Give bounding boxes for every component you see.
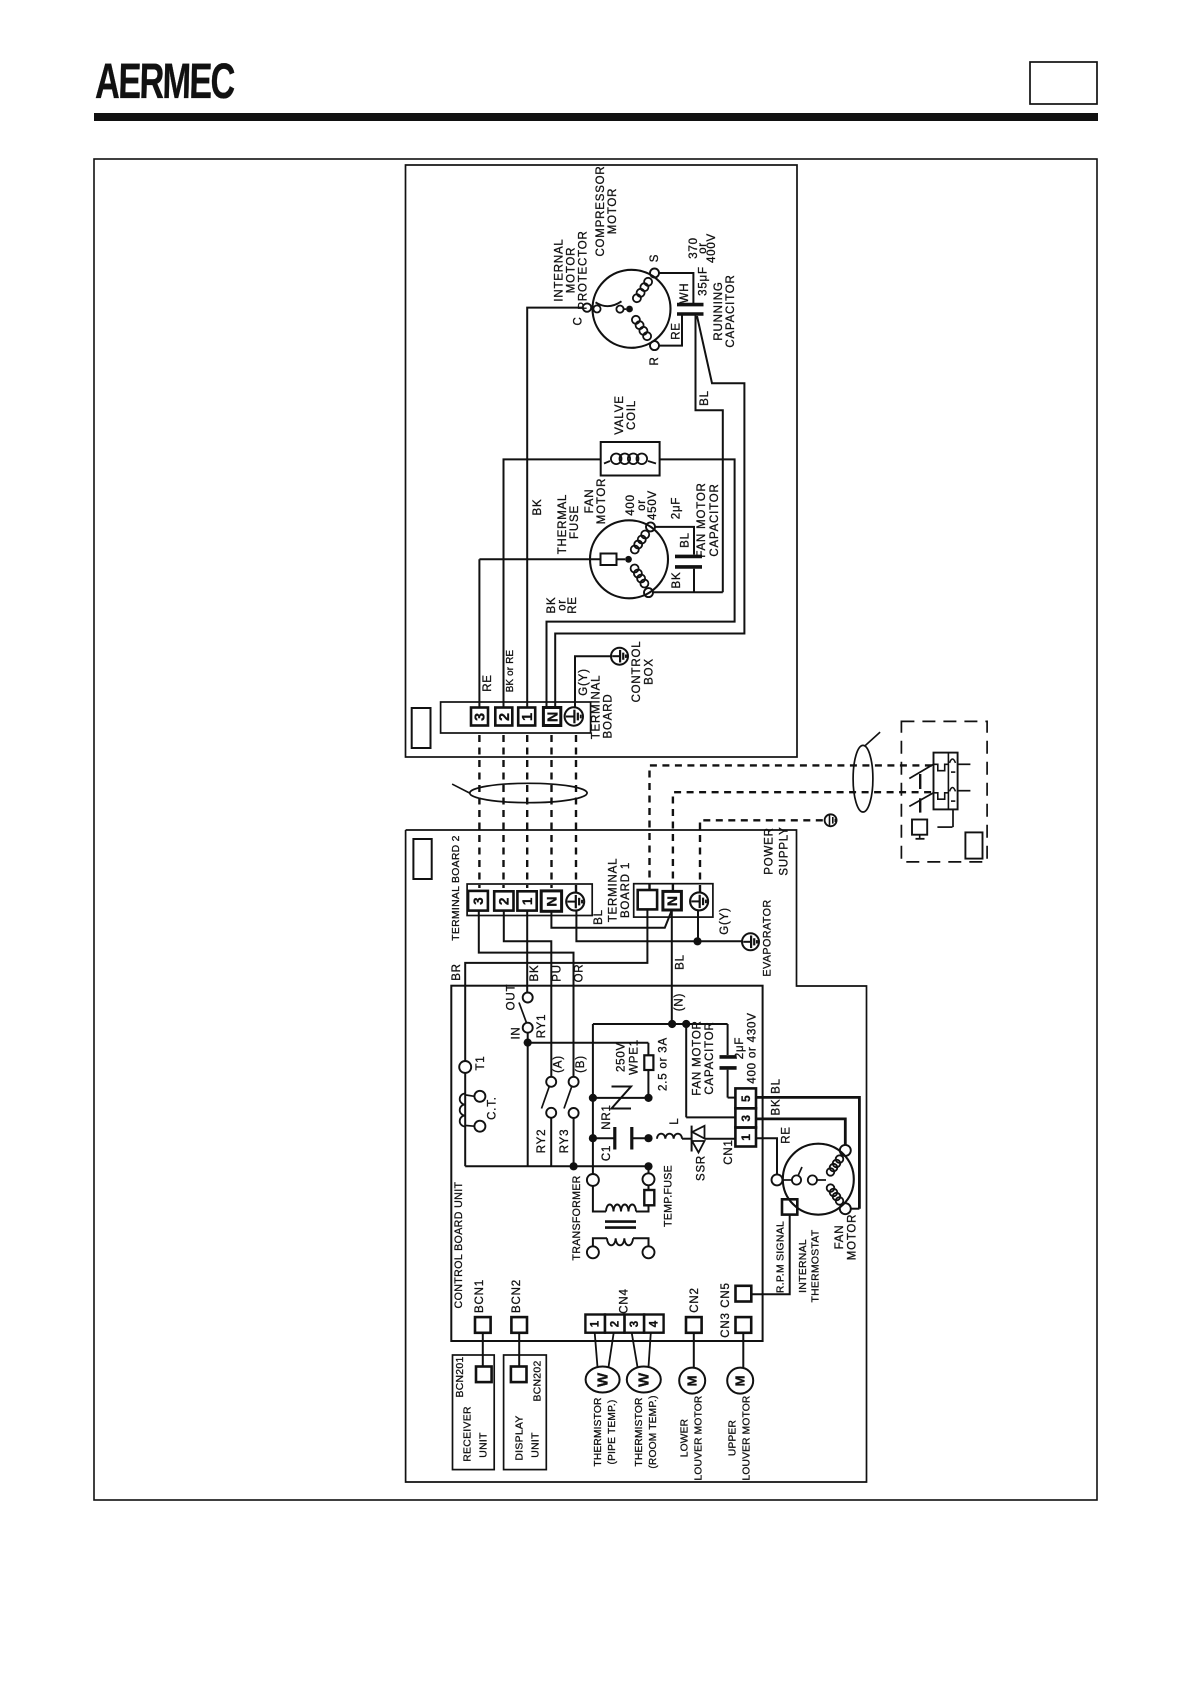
internal thermostat lead contact bbox=[772, 1174, 783, 1185]
svg-text:400 or 430V: 400 or 430V bbox=[747, 1012, 759, 1083]
svg-text:(PIPE TEMP.): (PIPE TEMP.) bbox=[607, 1400, 618, 1465]
lower louver motor bbox=[693, 1333, 695, 1368]
TB1 terminal blank bbox=[638, 890, 657, 909]
svg-text:BR: BR bbox=[451, 963, 463, 981]
svg-text:35μF: 35μF bbox=[698, 266, 710, 296]
svg-text:EVAPORATOR: EVAPORATOR bbox=[762, 899, 774, 976]
connector BCN202 bbox=[511, 1367, 527, 1383]
relay RY3 contact B bbox=[569, 1077, 579, 1087]
TB2 terminal N bbox=[541, 891, 561, 911]
svg-text:BK or RE: BK or RE bbox=[505, 650, 516, 693]
svg-text:3: 3 bbox=[629, 1320, 641, 1327]
dashed cable wire earth bbox=[575, 735, 577, 893]
svg-text:BL: BL bbox=[680, 532, 692, 548]
svg-text:S: S bbox=[649, 254, 661, 262]
fan motor bottom terminal bbox=[644, 588, 653, 597]
bottom bus wire bbox=[465, 1165, 648, 1167]
svg-text:G(Y): G(Y) bbox=[578, 668, 590, 695]
svg-text:OUT: OUT bbox=[506, 984, 518, 1011]
transformer core bbox=[605, 1220, 636, 1223]
terminal 2 bbox=[495, 708, 512, 726]
valve coil winding bbox=[611, 454, 622, 465]
svg-text:3: 3 bbox=[739, 1114, 753, 1121]
connector CN1 pin 3 bbox=[735, 1108, 756, 1127]
svg-text:450V: 450V bbox=[647, 490, 659, 520]
connector BCN2 bbox=[511, 1317, 527, 1333]
svg-text:BCN201: BCN201 bbox=[455, 1356, 466, 1397]
transformer secondary bbox=[593, 1238, 607, 1246]
indoor fan motor shell bbox=[783, 1144, 854, 1215]
fan motor winding to top bbox=[631, 546, 639, 554]
outdoor fan motor shell bbox=[590, 520, 668, 598]
svg-text:BL: BL bbox=[675, 954, 687, 970]
svg-text:BOARD: BOARD bbox=[603, 694, 615, 739]
relay RY2 bottom contact bbox=[546, 1108, 556, 1118]
thermistor pipe temp bbox=[586, 1367, 620, 1393]
wire CN1-1 RE bbox=[756, 1138, 777, 1174]
svg-text:TERMINAL: TERMINAL bbox=[591, 675, 603, 740]
svg-text:BK: BK bbox=[532, 499, 544, 516]
svg-text:(B): (B) bbox=[575, 1055, 587, 1073]
indoor fan motor top terminal bbox=[840, 1145, 851, 1156]
control box earth bbox=[611, 648, 628, 665]
svg-text:RE: RE bbox=[781, 1126, 793, 1144]
svg-text:R: R bbox=[649, 356, 661, 365]
svg-text:FAN: FAN bbox=[834, 1225, 846, 1250]
svg-text:C: C bbox=[573, 316, 585, 325]
svg-text:THERMAL: THERMAL bbox=[557, 494, 569, 555]
compressor winding to R bbox=[632, 316, 640, 324]
fan capacitor bottom stub bbox=[693, 569, 695, 593]
svg-text:TERMINAL BOARD 2: TERMINAL BOARD 2 bbox=[451, 835, 462, 940]
TB2 earth terminal bbox=[566, 893, 584, 911]
wire fuse drop to terminal 3 bbox=[478, 559, 480, 707]
compressor winding to S bbox=[633, 294, 641, 302]
power plug block bbox=[934, 753, 958, 810]
wire fan top terminal to fan capacitor bbox=[656, 527, 695, 555]
relay RY1 blade bbox=[519, 1003, 527, 1023]
svg-text:5: 5 bbox=[739, 1095, 753, 1102]
svg-text:NR1: NR1 bbox=[601, 1104, 613, 1129]
svg-text:M: M bbox=[684, 1375, 699, 1387]
power cable tick bbox=[865, 732, 880, 745]
terminal 3 bbox=[471, 708, 488, 726]
AERMEC logo bbox=[95, 54, 235, 110]
wire TB2-2 to PU bbox=[504, 911, 552, 1077]
relay RY2 blade bbox=[542, 1086, 550, 1109]
svg-text:250V: 250V bbox=[616, 1042, 628, 1072]
svg-text:N: N bbox=[545, 711, 561, 722]
power meter box with earth bbox=[912, 820, 927, 835]
relay RY3 bottom contact bbox=[569, 1108, 579, 1118]
display unit box bbox=[504, 1355, 547, 1470]
svg-text:2.5 or 3A: 2.5 or 3A bbox=[658, 1037, 670, 1091]
transformer primary bbox=[593, 1186, 606, 1212]
thermal fuse bbox=[601, 554, 617, 566]
cable tick bbox=[452, 784, 470, 793]
wire TB1 N BL down bbox=[671, 910, 673, 1024]
relay RY3 blade bbox=[564, 1086, 572, 1109]
svg-text:MOTOR: MOTOR bbox=[847, 1214, 859, 1261]
connector CN5 bbox=[736, 1286, 752, 1302]
plug output lines bbox=[958, 763, 971, 765]
wire diagonal to outer BL loop bbox=[555, 316, 744, 707]
svg-text:RE: RE bbox=[567, 596, 579, 614]
svg-text:BL: BL bbox=[771, 1078, 783, 1094]
dashed cable wire 2 bbox=[502, 735, 504, 888]
power earth pin symbol bbox=[825, 814, 837, 826]
svg-text:BL: BL bbox=[699, 390, 711, 406]
wire CN1-3 BK bbox=[756, 1119, 845, 1145]
svg-text:3: 3 bbox=[471, 897, 486, 905]
svg-text:RUNNING: RUNNING bbox=[713, 281, 725, 340]
fan motor top terminal bbox=[646, 522, 655, 531]
svg-text:1: 1 bbox=[520, 897, 535, 905]
relay RY1 OUT contact bbox=[523, 993, 533, 1003]
dashed power wire L bbox=[650, 765, 934, 890]
upper louver motor bbox=[742, 1333, 744, 1368]
svg-text:COIL: COIL bbox=[626, 400, 638, 430]
connector BCN1 bbox=[475, 1317, 491, 1333]
svg-text:PROTECTOR: PROTECTOR bbox=[578, 230, 590, 309]
svg-text:FAN MOTOR: FAN MOTOR bbox=[696, 482, 708, 557]
outer frame bbox=[94, 159, 1097, 1500]
internal thermostat contacts bbox=[783, 1179, 792, 1181]
svg-text:INTERNAL: INTERNAL bbox=[554, 238, 566, 301]
svg-text:T1: T1 bbox=[475, 1055, 487, 1070]
wire TB2-1 BK to RY1 bbox=[526, 911, 528, 993]
breaker switch blades bbox=[909, 764, 933, 778]
compressor winding junction bbox=[624, 308, 627, 310]
terminal N bbox=[543, 708, 560, 726]
svg-text:N: N bbox=[664, 895, 680, 906]
running capacitor C plates bbox=[677, 303, 704, 307]
indoor label box bbox=[413, 839, 431, 879]
terminal board 1 bbox=[634, 884, 713, 917]
evaporator earth bbox=[742, 933, 759, 950]
svg-text:SSR: SSR bbox=[696, 1155, 708, 1181]
TB2 terminal 2 bbox=[494, 891, 513, 910]
svg-text:UPPER: UPPER bbox=[728, 1420, 739, 1456]
svg-text:RY1: RY1 bbox=[536, 1014, 548, 1039]
fan motor capacitor indoor bbox=[727, 1024, 729, 1055]
svg-text:RE: RE bbox=[482, 674, 494, 692]
temp fuse bbox=[644, 1190, 654, 1205]
wire earth to control box earth bbox=[575, 656, 611, 708]
svg-text:BCN202: BCN202 bbox=[533, 1360, 544, 1401]
RY1 down wire bbox=[527, 1043, 529, 1167]
svg-text:W: W bbox=[636, 1372, 653, 1387]
connector T1 bbox=[459, 1061, 471, 1073]
svg-text:BK: BK bbox=[671, 572, 683, 589]
valve coil box bbox=[601, 442, 660, 476]
svg-text:IN: IN bbox=[511, 1026, 523, 1039]
svg-text:WPE1: WPE1 bbox=[629, 1039, 641, 1075]
thermistor room temp leads bbox=[632, 1333, 638, 1367]
connector CN1 pin 1 bbox=[735, 1128, 756, 1147]
svg-text:1: 1 bbox=[520, 712, 536, 721]
svg-text:RECEIVER: RECEIVER bbox=[463, 1406, 474, 1462]
RY3 junction dot bbox=[570, 1162, 578, 1170]
wire valve coil left to terminal 2 bbox=[504, 459, 601, 707]
live feed bus bbox=[528, 1042, 649, 1044]
svg-text:FAN MOTOR: FAN MOTOR bbox=[692, 1020, 704, 1095]
svg-text:1: 1 bbox=[739, 1133, 753, 1140]
thermal fuse wire bbox=[479, 558, 600, 560]
svg-text:BK: BK bbox=[771, 1099, 783, 1116]
indoor fan motor winding bottom bbox=[827, 1184, 835, 1192]
wire C to terminal 1 BK bbox=[527, 308, 582, 707]
power supply box bbox=[901, 721, 987, 862]
power label box bbox=[965, 832, 982, 858]
svg-text:TERMINAL: TERMINAL bbox=[608, 858, 620, 923]
svg-text:CN2: CN2 bbox=[689, 1287, 701, 1312]
temp fuse pin bbox=[643, 1173, 655, 1185]
current transformer CT bbox=[464, 1073, 466, 1166]
svg-text:INTERNAL: INTERNAL bbox=[798, 1239, 809, 1293]
svg-text:AERMEC: AERMEC bbox=[95, 54, 235, 110]
header title box bbox=[1030, 62, 1097, 104]
terminal 1 bbox=[518, 708, 535, 726]
wire valve coil right to terminal N bbox=[547, 459, 735, 707]
svg-text:CONTROL BOARD UNIT: CONTROL BOARD UNIT bbox=[453, 1181, 465, 1308]
rpm signal wire bbox=[751, 1215, 789, 1295]
svg-text:(ROOM TEMP.): (ROOM TEMP.) bbox=[648, 1395, 659, 1468]
inductor L bbox=[657, 1134, 682, 1139]
svg-text:M: M bbox=[732, 1375, 747, 1387]
cable ellipse bbox=[470, 783, 587, 802]
compressor terminal C bbox=[583, 303, 591, 311]
transformer primary pin bbox=[587, 1174, 599, 1186]
compressor motor M1 shell bbox=[593, 270, 671, 348]
svg-text:BOX: BOX bbox=[644, 658, 656, 685]
outdoor terminal board bbox=[441, 702, 591, 733]
dashed cable wire N bbox=[550, 735, 552, 888]
svg-text:CN4: CN4 bbox=[619, 1288, 631, 1313]
svg-text:THERMOSTAT: THERMOSTAT bbox=[811, 1229, 822, 1302]
svg-text:DISPLAY: DISPLAY bbox=[515, 1415, 526, 1460]
varistor NR1 bbox=[589, 1094, 597, 1102]
svg-text:BOARD 1: BOARD 1 bbox=[620, 862, 632, 918]
TB1 terminal N bbox=[663, 891, 682, 910]
svg-text:OR: OR bbox=[574, 964, 586, 983]
svg-text:1: 1 bbox=[590, 1320, 602, 1327]
dashed power earth wire bbox=[700, 820, 823, 892]
indoor fan motor bottom terminal bbox=[840, 1203, 851, 1214]
svg-text:CONTROL: CONTROL bbox=[631, 641, 643, 703]
SSR triac bbox=[691, 1126, 693, 1152]
svg-text:MOTOR: MOTOR bbox=[566, 247, 578, 294]
TB2 terminal 1 bbox=[517, 891, 536, 910]
svg-text:LOUVER MOTOR: LOUVER MOTOR bbox=[694, 1396, 705, 1481]
svg-text:R.P.M SIGNAL: R.P.M SIGNAL bbox=[776, 1221, 787, 1293]
svg-text:N: N bbox=[543, 896, 559, 907]
receiver unit box bbox=[453, 1355, 495, 1470]
svg-text:MOTOR: MOTOR bbox=[596, 478, 608, 525]
svg-text:C.T.: C.T. bbox=[487, 1096, 499, 1120]
svg-text:BCN1: BCN1 bbox=[474, 1279, 486, 1313]
header rule bbox=[94, 113, 1098, 121]
connector CN2 bbox=[686, 1317, 702, 1333]
svg-text:CN5: CN5 bbox=[720, 1282, 732, 1307]
svg-text:2μF: 2μF bbox=[671, 497, 683, 519]
svg-text:3: 3 bbox=[473, 712, 489, 721]
indoor fan motor winding top bbox=[827, 1168, 835, 1176]
earth bus wire bbox=[576, 911, 742, 942]
outdoor unit box bbox=[406, 165, 798, 757]
svg-text:2: 2 bbox=[609, 1320, 621, 1327]
transformer secondary pins bbox=[587, 1246, 599, 1258]
svg-text:RE: RE bbox=[671, 322, 683, 340]
internal motor protector contacts bbox=[593, 305, 600, 312]
thermistor pipe temp leads bbox=[595, 1333, 598, 1367]
terminal board 2 bbox=[467, 884, 592, 916]
wire N to CN1-3 bbox=[685, 1024, 687, 1117]
dashed cable wire 3 bbox=[478, 735, 480, 888]
svg-text:THERMISTOR: THERMISTOR bbox=[593, 1397, 604, 1466]
svg-text:CAPACITOR: CAPACITOR bbox=[725, 274, 737, 347]
svg-text:THERMISTOR: THERMISTOR bbox=[634, 1397, 645, 1466]
connector CN3 bbox=[736, 1317, 752, 1333]
svg-text:FAN: FAN bbox=[584, 489, 596, 514]
power cable ellipse bbox=[853, 745, 873, 812]
wire fan bottom terminal BK bbox=[654, 591, 723, 593]
N horizontal wire bbox=[593, 1023, 728, 1025]
rpm signal sensor bbox=[782, 1199, 797, 1214]
svg-text:CN3: CN3 bbox=[720, 1312, 732, 1337]
svg-text:PU: PU bbox=[551, 964, 563, 982]
RY1 junction dot bbox=[524, 1039, 532, 1047]
svg-text:RY2: RY2 bbox=[536, 1129, 548, 1154]
svg-text:UNIT: UNIT bbox=[531, 1432, 542, 1458]
svg-text:CN1: CN1 bbox=[723, 1139, 735, 1164]
relay RY1 IN contact bbox=[523, 1023, 533, 1033]
svg-text:TEMP.FUSE: TEMP.FUSE bbox=[662, 1165, 674, 1227]
svg-text:(A): (A) bbox=[553, 1055, 565, 1073]
svg-text:BK: BK bbox=[529, 965, 541, 982]
fan motor winding to bottom bbox=[631, 565, 639, 573]
outdoor label box bbox=[412, 708, 431, 748]
power link line bbox=[937, 826, 952, 828]
capacitor C1 bbox=[589, 1134, 597, 1142]
wire SSR to CN1-1 bbox=[705, 1138, 736, 1140]
svg-text:C1: C1 bbox=[601, 1145, 613, 1161]
svg-text:FUSE: FUSE bbox=[569, 505, 581, 539]
dashed power wire N bbox=[673, 792, 933, 891]
earth bus junction dot bbox=[693, 937, 701, 945]
N node dots bbox=[668, 1020, 676, 1028]
N column wire bbox=[592, 1024, 594, 1174]
svg-text:TRANSFORMER: TRANSFORMER bbox=[571, 1175, 583, 1260]
svg-text:BCN2: BCN2 bbox=[511, 1279, 523, 1313]
relay RY2 contact A bbox=[546, 1077, 556, 1087]
svg-text:BL: BL bbox=[593, 909, 605, 925]
svg-text:L: L bbox=[669, 1117, 681, 1124]
outdoor terminal earth bbox=[565, 707, 583, 725]
connector BCN201 bbox=[476, 1367, 492, 1383]
TB2 terminal 3 bbox=[468, 891, 488, 911]
svg-text:LOWER: LOWER bbox=[680, 1419, 691, 1457]
svg-text:2μF: 2μF bbox=[734, 1037, 746, 1059]
fan motor winding junction bbox=[625, 556, 632, 563]
svg-text:VALVE: VALVE bbox=[614, 395, 626, 434]
compressor terminal R bbox=[650, 341, 659, 350]
svg-text:W: W bbox=[594, 1372, 611, 1387]
compressor terminal S bbox=[650, 269, 659, 278]
svg-text:UNIT: UNIT bbox=[479, 1432, 490, 1458]
wire S to running capacitor bbox=[660, 273, 694, 303]
connector CN4 bbox=[585, 1315, 663, 1333]
svg-text:G(Y): G(Y) bbox=[719, 907, 731, 934]
svg-text:POWER: POWER bbox=[764, 827, 776, 874]
wire TB2 N to TB1 N BL link bbox=[551, 911, 671, 928]
wire TB2-3 to OR bbox=[479, 911, 574, 1077]
svg-text:4: 4 bbox=[648, 1320, 660, 1327]
wire R to running capacitor bbox=[660, 316, 683, 346]
fuse WPE1 bbox=[647, 1043, 649, 1056]
svg-text:RY3: RY3 bbox=[559, 1129, 571, 1154]
svg-text:MOTOR: MOTOR bbox=[607, 188, 619, 235]
thermistor room temp bbox=[627, 1367, 661, 1393]
wire CN1-5 BL bbox=[756, 1097, 859, 1208]
fan motor capacitor plates outdoor bbox=[675, 555, 702, 559]
svg-text:2: 2 bbox=[497, 712, 513, 721]
svg-text:CAPACITOR: CAPACITOR bbox=[709, 483, 721, 556]
svg-text:400V: 400V bbox=[706, 233, 718, 263]
wire BL from capacitor down bbox=[696, 316, 723, 593]
wire TB1 blank to BR bbox=[465, 909, 647, 1061]
indoor unit box bbox=[406, 830, 867, 1482]
svg-text:LOUVER MOTOR: LOUVER MOTOR bbox=[742, 1396, 753, 1481]
svg-text:CAPACITOR: CAPACITOR bbox=[704, 1021, 716, 1094]
svg-text:(N): (N) bbox=[674, 993, 686, 1011]
svg-text:COMPRESSOR: COMPRESSOR bbox=[595, 165, 607, 256]
TB1 earth terminal bbox=[690, 892, 708, 910]
svg-text:2: 2 bbox=[497, 897, 512, 905]
svg-text:SUPPLY: SUPPLY bbox=[779, 826, 791, 875]
svg-text:WH: WH bbox=[679, 283, 691, 304]
dashed cable wire 1 bbox=[526, 735, 528, 888]
control board unit box bbox=[451, 986, 762, 1341]
connector CN1 pin 5 bbox=[735, 1088, 756, 1108]
